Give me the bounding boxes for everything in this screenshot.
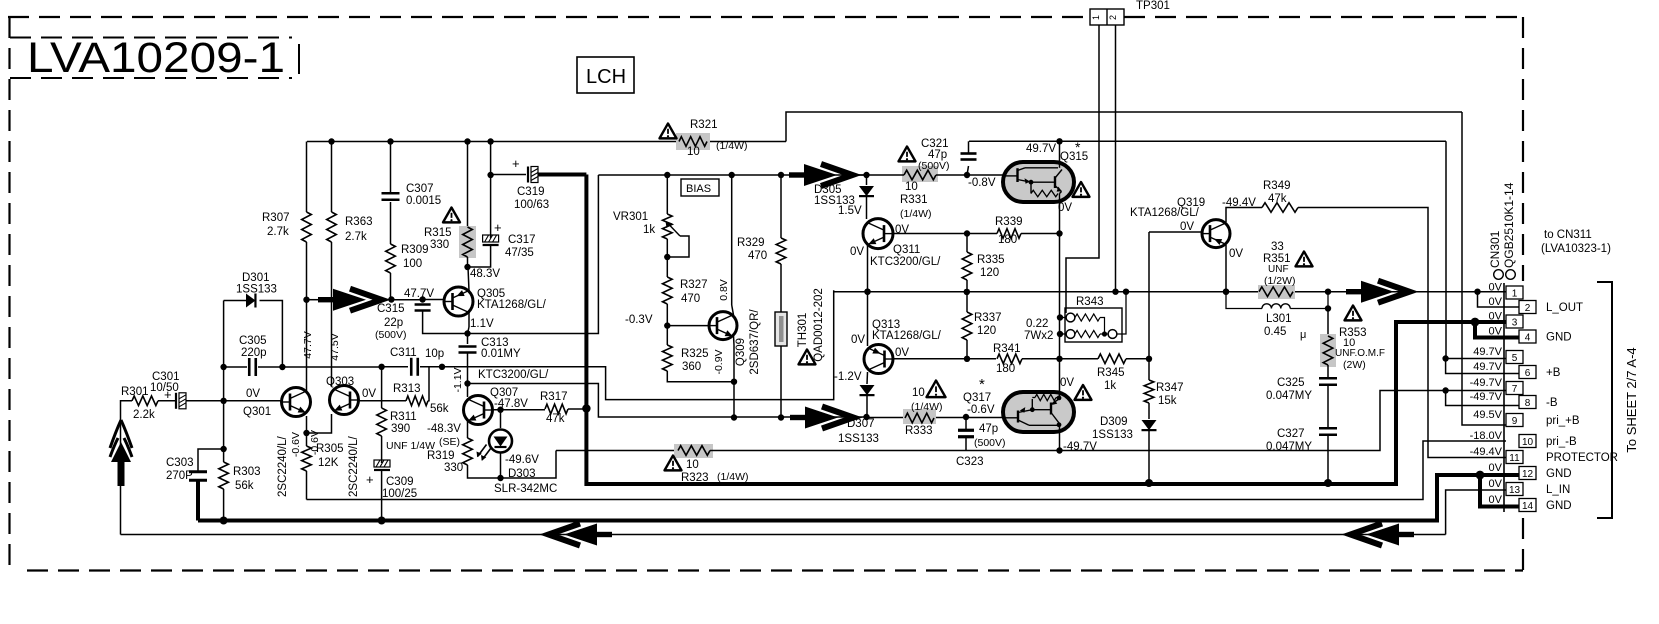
warning R323 bbox=[665, 456, 682, 471]
label 47.5V rot bbox=[329, 333, 341, 360]
wire R329-TH301 bbox=[780, 264, 782, 312]
resistor R345 bbox=[1098, 354, 1149, 364]
label Q313 0V l bbox=[851, 334, 865, 346]
svg-text:R315: R315 bbox=[424, 227, 452, 239]
svg-text:UNF: UNF bbox=[1268, 264, 1289, 275]
svg-text:56k: 56k bbox=[235, 480, 254, 492]
label D303 bbox=[508, 468, 536, 480]
wire C319 left bbox=[491, 174, 526, 176]
node R341 right bbox=[1056, 356, 1062, 362]
wire fb rail left bbox=[282, 366, 381, 368]
connector TP301 bbox=[1090, 9, 1124, 25]
svg-text:0.22: 0.22 bbox=[1026, 318, 1048, 330]
wire R327-R325 bbox=[666, 304, 668, 345]
svg-text:R321: R321 bbox=[690, 119, 718, 131]
resistor R313 bbox=[406, 396, 428, 406]
wire C303 branch bbox=[198, 449, 224, 471]
label -0.9V rot bbox=[713, 349, 725, 374]
svg-text:R329: R329 bbox=[737, 237, 765, 249]
node R343 bot-left bbox=[1057, 331, 1063, 337]
svg-text:C327: C327 bbox=[1277, 428, 1305, 440]
svg-text:C317: C317 bbox=[508, 234, 536, 246]
wire R331-Q315 bbox=[967, 174, 1005, 176]
svg-text:22p: 22p bbox=[384, 317, 403, 329]
node Q309 emitter bbox=[731, 379, 737, 385]
svg-text:1: 1 bbox=[1091, 15, 1101, 20]
label Q301 -0.6V bbox=[290, 432, 302, 457]
svg-text:+B: +B bbox=[1546, 367, 1561, 379]
svg-text:0V: 0V bbox=[895, 347, 909, 359]
title box dash bottom bbox=[10, 77, 292, 79]
wire Q305 base bbox=[423, 299, 444, 301]
page dashed border left bbox=[8, 17, 10, 570]
svg-text:-0.9V: -0.9V bbox=[713, 349, 725, 374]
label C303 bbox=[166, 457, 194, 482]
label Q311 bbox=[870, 244, 941, 268]
wire R309 column bbox=[390, 273, 392, 300]
svg-text:-0.6V: -0.6V bbox=[967, 404, 995, 416]
label pin6 voltage bbox=[1473, 361, 1502, 373]
svg-text:Q301: Q301 bbox=[243, 406, 271, 418]
wire R311-C309 bbox=[381, 436, 383, 463]
svg-text:2: 2 bbox=[1108, 15, 1118, 20]
capacitor C319 bbox=[512, 156, 538, 183]
label R301 bbox=[121, 386, 155, 421]
capacitor C309 bbox=[366, 460, 390, 487]
label 1.5V bbox=[838, 205, 862, 217]
connector CN301 pin 14 bbox=[1519, 499, 1536, 513]
connector CN301 pin 5 bbox=[1506, 351, 1523, 365]
label -49.7V out bbox=[1063, 441, 1097, 453]
svg-text:180: 180 bbox=[998, 234, 1017, 246]
wire C325-C327 bbox=[1327, 385, 1329, 428]
svg-text:R311: R311 bbox=[390, 411, 417, 423]
LCH label box bbox=[577, 57, 634, 93]
wire Q317 bottom bbox=[1059, 432, 1061, 451]
page dashed border top bbox=[8, 16, 1523, 18]
svg-text:47.5V: 47.5V bbox=[329, 333, 341, 360]
node C327 bottom bbox=[1324, 479, 1332, 487]
svg-text:1SS133: 1SS133 bbox=[838, 433, 879, 445]
resistor R323 bbox=[674, 444, 713, 458]
node R339 right bbox=[1056, 230, 1062, 236]
diode D307 bbox=[860, 385, 875, 417]
svg-text:120: 120 bbox=[977, 325, 996, 337]
svg-text:R309: R309 bbox=[401, 244, 429, 256]
connector CN301 pin 12 bbox=[1519, 467, 1536, 481]
label -0.3V bbox=[625, 314, 653, 326]
node Q317 bottom bbox=[1056, 447, 1062, 453]
node C303 top bbox=[220, 446, 226, 452]
resistor R351 bbox=[1258, 285, 1295, 299]
svg-text:0V: 0V bbox=[362, 388, 376, 400]
node Q307 coll node bbox=[464, 380, 470, 386]
label R335 bbox=[977, 254, 1005, 279]
label R341 bbox=[993, 343, 1021, 375]
wire LED bottom bbox=[500, 453, 502, 479]
svg-text:R327: R327 bbox=[680, 279, 708, 291]
svg-text:0V: 0V bbox=[1060, 377, 1074, 389]
svg-text:+: + bbox=[494, 220, 502, 235]
capacitor C311 bbox=[411, 358, 418, 376]
signal arrow Lin right bbox=[1351, 524, 1415, 546]
wire R345 wire bbox=[1060, 358, 1099, 360]
inductor L301 bbox=[1226, 292, 1328, 309]
svg-text:470: 470 bbox=[681, 293, 700, 305]
wire -B line2 bbox=[710, 391, 1506, 451]
transistor Q301 bbox=[282, 388, 311, 417]
svg-text:470: 470 bbox=[748, 250, 767, 262]
label D309 bbox=[1092, 416, 1133, 441]
svg-text:47k: 47k bbox=[1268, 193, 1287, 205]
signal arrow stage3 bbox=[790, 407, 854, 429]
label R323 bbox=[681, 459, 749, 484]
svg-text:0V: 0V bbox=[1180, 221, 1194, 233]
svg-text:49.5V: 49.5V bbox=[1473, 409, 1502, 421]
svg-text:R337: R337 bbox=[974, 312, 1002, 324]
led D303 bbox=[477, 430, 513, 461]
svg-text:C307: C307 bbox=[406, 183, 434, 195]
wire R301-C301 bbox=[158, 400, 176, 402]
node rail-C319 bbox=[487, 138, 493, 144]
label C307 bbox=[406, 183, 441, 207]
wire Q309 base bbox=[667, 325, 709, 327]
transistor Q307 bbox=[464, 396, 493, 425]
label BIAS box bbox=[681, 179, 719, 196]
svg-text:C309: C309 bbox=[386, 476, 414, 488]
wire Q303 collector bbox=[331, 142, 333, 387]
signal arrow stage2 bbox=[789, 164, 853, 186]
resistor R341 bbox=[997, 354, 1060, 364]
svg-text:R341: R341 bbox=[993, 343, 1021, 355]
svg-text:BIAS: BIAS bbox=[686, 183, 711, 195]
svg-text:R339: R339 bbox=[995, 216, 1023, 228]
label pin8 voltage bbox=[1470, 391, 1503, 403]
svg-text:-18.0V: -18.0V bbox=[1470, 430, 1503, 442]
label 47.7V rot bbox=[302, 331, 314, 358]
svg-text:UNF.O.M.F: UNF.O.M.F bbox=[1335, 348, 1385, 359]
label C311 bbox=[390, 347, 444, 360]
svg-text:SLR-342MC: SLR-342MC bbox=[494, 483, 557, 495]
node pin5 junction bbox=[1442, 355, 1448, 361]
label R309 bbox=[401, 244, 429, 270]
svg-text:0V: 0V bbox=[1489, 462, 1503, 474]
svg-text:L301: L301 bbox=[1266, 313, 1292, 325]
svg-text:-49.7V: -49.7V bbox=[1470, 391, 1503, 403]
resistor R321 bbox=[676, 133, 710, 150]
label pin10 voltage bbox=[1470, 430, 1503, 442]
svg-text:Q303: Q303 bbox=[326, 376, 354, 388]
capacitor C317 bbox=[483, 220, 502, 245]
node +B-Q315 bbox=[1056, 138, 1062, 144]
svg-text:0V: 0V bbox=[1489, 494, 1503, 506]
label Q303 -0.6V bbox=[309, 430, 321, 455]
label R315 bbox=[424, 227, 452, 251]
wire C305 left stub bbox=[224, 366, 247, 368]
node -0.3V node bbox=[664, 322, 670, 328]
label C315 bbox=[375, 303, 407, 341]
wire TH301 bottom bbox=[780, 346, 782, 418]
svg-text:4: 4 bbox=[1525, 333, 1531, 344]
label Q315 bbox=[1060, 139, 1088, 163]
svg-text:33: 33 bbox=[1271, 241, 1284, 253]
label R307 bbox=[262, 212, 290, 238]
svg-text:+: + bbox=[512, 156, 520, 171]
wire pin3 stub thick bbox=[1475, 320, 1506, 324]
svg-text:+: + bbox=[366, 472, 374, 487]
node L301 right bbox=[1325, 305, 1331, 311]
node out Q311e bbox=[864, 289, 870, 295]
wire Q307 coll bbox=[467, 384, 469, 398]
wire 49.5V rail bbox=[786, 112, 1462, 142]
wire pin8 stub bbox=[1446, 391, 1519, 406]
svg-text:0.01MY: 0.01MY bbox=[481, 348, 521, 360]
node D307 bottom bbox=[863, 414, 869, 420]
label 0.22 7Wx2 bbox=[1024, 318, 1053, 342]
label pin5 voltage bbox=[1473, 346, 1502, 358]
svg-text:C319: C319 bbox=[517, 186, 545, 198]
svg-text:220p: 220p bbox=[241, 347, 267, 359]
wire pin4 stub thick bbox=[1475, 322, 1519, 338]
node VR301 wiper bbox=[664, 254, 670, 260]
wire R353-C325 bbox=[1327, 365, 1329, 378]
svg-text:10: 10 bbox=[1522, 437, 1534, 448]
svg-text:47.7V: 47.7V bbox=[302, 331, 314, 358]
label C319 bbox=[514, 186, 549, 211]
label TP301 bbox=[1136, 0, 1170, 12]
label -1.1V rot bbox=[452, 367, 464, 392]
resistor R335 bbox=[962, 234, 972, 293]
wire pin13 route bbox=[1446, 490, 1506, 535]
node R309 bottom bbox=[388, 296, 394, 302]
svg-text:(1/4W): (1/4W) bbox=[716, 140, 748, 152]
node rail-R363 bbox=[328, 138, 334, 144]
svg-text:To SHEET 2/7 A-4: To SHEET 2/7 A-4 bbox=[1624, 347, 1639, 452]
label -0.6V Q317 bbox=[967, 404, 995, 416]
svg-text:14: 14 bbox=[1522, 501, 1534, 512]
wire Q313 emitter bbox=[866, 372, 869, 384]
label C325 bbox=[1266, 377, 1312, 402]
svg-text:(1/4W): (1/4W) bbox=[911, 401, 943, 413]
label pin14 GND bbox=[1546, 500, 1572, 512]
svg-text:11: 11 bbox=[1509, 453, 1520, 464]
svg-text:2SC2240/L/: 2SC2240/L/ bbox=[277, 435, 289, 497]
resistor R307 bbox=[302, 212, 312, 242]
warning R315 bbox=[443, 208, 460, 223]
svg-text:2.2k: 2.2k bbox=[133, 409, 155, 421]
node R315 bottom bbox=[464, 264, 470, 270]
wire C305 right bbox=[258, 366, 282, 368]
svg-text:R335: R335 bbox=[977, 254, 1005, 266]
node VR301 top bbox=[664, 172, 670, 178]
svg-text:47p: 47p bbox=[979, 423, 998, 435]
label Q301 0V bbox=[246, 388, 260, 400]
node 1.1V node bbox=[464, 330, 470, 336]
wire fb rail step bbox=[442, 290, 834, 399]
svg-text:R325: R325 bbox=[681, 348, 709, 360]
signal arrow input bbox=[110, 420, 132, 486]
svg-text:(LVA10323-1): (LVA10323-1) bbox=[1541, 243, 1611, 255]
resistor R319 bbox=[463, 438, 473, 465]
page dashed border right upper bbox=[1522, 17, 1524, 281]
node out TP2 bbox=[1112, 289, 1118, 295]
label KTC3200 Q307 bbox=[478, 369, 549, 381]
svg-text:(500V): (500V) bbox=[974, 437, 1006, 449]
svg-text:R331: R331 bbox=[900, 194, 928, 206]
svg-text:LVA10209-1: LVA10209-1 bbox=[27, 34, 285, 82]
wire R309 node bbox=[383, 299, 423, 301]
wire pin12 stub thick bbox=[1480, 473, 1519, 477]
node out R335 bbox=[964, 289, 970, 295]
label C313 bbox=[481, 337, 521, 360]
svg-text:-49.4V: -49.4V bbox=[1222, 197, 1256, 209]
wire Q313 base wire bbox=[893, 358, 996, 360]
node Q309 coll top bbox=[729, 172, 735, 178]
capacitor C303 bbox=[189, 472, 207, 481]
node out pin1 bbox=[1474, 289, 1480, 295]
svg-text:-1.2V: -1.2V bbox=[834, 371, 862, 383]
wire 48V rail cont bbox=[707, 141, 786, 143]
resistor R305 bbox=[302, 433, 312, 500]
wire R353 top bbox=[1327, 309, 1329, 337]
svg-text:120: 120 bbox=[980, 267, 999, 279]
svg-text:(500V): (500V) bbox=[918, 160, 950, 172]
wire D301 branch bbox=[224, 300, 246, 302]
svg-text:(500V): (500V) bbox=[375, 329, 407, 341]
wire -18V line bbox=[307, 441, 1507, 500]
transistor Q303 bbox=[330, 386, 359, 415]
wire 1.1V rail bbox=[468, 175, 599, 334]
wire pin1 stub bbox=[1478, 291, 1506, 293]
label C309 bbox=[382, 476, 417, 500]
svg-text:330: 330 bbox=[444, 462, 463, 474]
wire C319 right thick bbox=[538, 173, 586, 177]
svg-text:KTC3200/GL/: KTC3200/GL/ bbox=[478, 369, 549, 381]
node C309 bottom bbox=[378, 517, 386, 525]
label pin3 voltage bbox=[1489, 311, 1503, 323]
connector CN301 pin 10 bbox=[1519, 435, 1536, 449]
svg-text:2.7k: 2.7k bbox=[345, 231, 367, 243]
svg-text:CN301: CN301 bbox=[1488, 230, 1502, 268]
label pin6 +B bbox=[1546, 367, 1561, 379]
wire pin6 stub bbox=[1446, 359, 1519, 374]
label Q301 bbox=[243, 406, 271, 418]
label -0.8V bbox=[968, 177, 996, 189]
svg-text:10: 10 bbox=[686, 459, 699, 471]
label R317 bbox=[540, 391, 568, 425]
label D305 bbox=[814, 184, 855, 207]
wire L_IN line bbox=[121, 534, 1446, 536]
node R337 bottom bbox=[964, 356, 970, 362]
label Q311 0V l bbox=[850, 246, 864, 258]
svg-text:GND: GND bbox=[1546, 500, 1572, 512]
capacitor C307 bbox=[382, 142, 400, 200]
diode D301 bbox=[246, 294, 255, 308]
node TH301 bottom bbox=[778, 414, 784, 420]
label -49.6V bbox=[505, 454, 539, 466]
svg-text:0.047MY: 0.047MY bbox=[1266, 390, 1312, 402]
svg-text:390: 390 bbox=[391, 423, 410, 435]
resistor R349 bbox=[1262, 203, 1506, 458]
wire VR301-R327 bbox=[666, 239, 668, 277]
svg-text:270P: 270P bbox=[166, 470, 193, 482]
svg-text:360: 360 bbox=[682, 361, 701, 373]
wire Q307 base wire bbox=[493, 409, 546, 411]
wire output rail2 bbox=[1293, 291, 1506, 293]
page dashed border bottom bbox=[27, 569, 1523, 571]
label Q313 bbox=[872, 319, 942, 342]
svg-text:QGB2510K1-14: QGB2510K1-14 bbox=[1502, 182, 1516, 268]
svg-text:D301: D301 bbox=[242, 272, 270, 284]
svg-text:-0.3V: -0.3V bbox=[625, 314, 653, 326]
label R313 bbox=[393, 383, 449, 415]
svg-text:GND: GND bbox=[1546, 468, 1572, 480]
wire C307 link bbox=[390, 202, 392, 244]
svg-text:R301: R301 bbox=[121, 386, 149, 398]
label Q319 0V bbox=[1180, 221, 1194, 233]
node Q309 e wire bbox=[731, 414, 737, 420]
svg-text:R313: R313 bbox=[393, 383, 421, 395]
svg-text:C325: C325 bbox=[1277, 377, 1305, 389]
wire pin14 stub thick bbox=[1480, 475, 1519, 507]
wire 49.5V drop to pin9 bbox=[1462, 112, 1506, 425]
svg-text:(SE): (SE) bbox=[439, 436, 460, 448]
node -B pin7 bbox=[1442, 387, 1448, 393]
label Q303 bbox=[326, 376, 354, 388]
wire C309 bottom bbox=[381, 470, 383, 521]
label TH301 rot bbox=[797, 288, 825, 362]
svg-text:R363: R363 bbox=[345, 216, 373, 228]
node rail-R315 bbox=[464, 138, 470, 144]
svg-text:0.0015: 0.0015 bbox=[406, 195, 441, 207]
node input-base bbox=[220, 398, 226, 404]
capacitor C313 bbox=[459, 334, 477, 384]
wire Q313 collector bbox=[867, 292, 869, 346]
node Q311 emitter bbox=[864, 289, 870, 295]
svg-text:0V: 0V bbox=[1229, 248, 1243, 260]
diode D309 bbox=[1142, 420, 1157, 483]
label to CN311 bbox=[1541, 229, 1611, 255]
wire emitters join bbox=[307, 414, 332, 433]
label pin9 voltage bbox=[1473, 409, 1502, 421]
resistor R317 bbox=[545, 404, 586, 414]
wire pin5 stub bbox=[1446, 358, 1506, 360]
wire C301-Q301 bbox=[186, 400, 282, 402]
node R317 bus bbox=[582, 404, 590, 412]
label R303 bbox=[233, 466, 261, 492]
svg-text:-49.6V: -49.6V bbox=[505, 454, 539, 466]
resistor R315 bbox=[459, 226, 476, 258]
wire Q319 base bbox=[1149, 231, 1202, 233]
connector CN301 body bbox=[1494, 270, 1516, 512]
label R333 bbox=[905, 387, 943, 437]
node Q301 coll node bbox=[303, 297, 309, 303]
svg-text:-0.8V: -0.8V bbox=[968, 177, 996, 189]
connector CN301 pin 4 bbox=[1519, 330, 1536, 344]
label D301 bbox=[236, 272, 277, 296]
svg-text:R307: R307 bbox=[262, 212, 290, 224]
label pin12 GND bbox=[1546, 468, 1572, 480]
diode D305 bbox=[859, 175, 874, 219]
svg-text:to CN311: to CN311 bbox=[1544, 229, 1592, 241]
resistor R329 bbox=[776, 238, 786, 264]
label Q319 bbox=[1130, 197, 1205, 219]
svg-text:12K: 12K bbox=[318, 457, 339, 469]
svg-text:8: 8 bbox=[1525, 398, 1531, 409]
svg-text:-49.7V: -49.7V bbox=[1470, 377, 1503, 389]
node R343 top-left bbox=[1057, 314, 1063, 320]
wire +B rail bbox=[969, 140, 1446, 142]
